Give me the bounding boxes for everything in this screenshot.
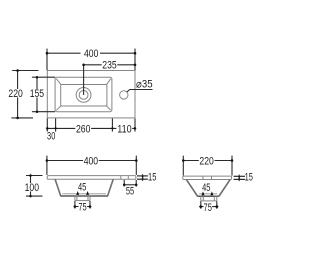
plan view outer rect bbox=[47, 71, 135, 118]
svg-text:400: 400 bbox=[84, 48, 98, 60]
dim dot 155 top bbox=[36, 76, 39, 79]
dim dot 400 right bbox=[134, 52, 137, 55]
svg-text:110: 110 bbox=[117, 123, 131, 135]
dim dot bottom right bbox=[134, 127, 137, 130]
text masks front bbox=[24, 156, 136, 210]
bottom dims extension x46.8 bbox=[46, 118, 48, 131]
front bowl left wall bbox=[55, 179, 61, 195]
text masks side bbox=[199, 156, 215, 210]
basin corner chamfer BR bbox=[107, 106, 111, 110]
dim 30 260 110 line bbox=[47, 127, 135, 129]
side dim 15 line bbox=[238, 175, 240, 182]
side dim 220 ext right bbox=[231, 156, 233, 176]
svg-text:75: 75 bbox=[204, 202, 212, 214]
dim 155 line bbox=[36, 77, 38, 112]
side bowl outer bottom bbox=[197, 195, 219, 197]
front dot 400 right bbox=[135, 159, 138, 162]
front dim 100 line bbox=[30, 176, 32, 197]
front dim 55 ext left bbox=[123, 180, 125, 187]
dim 220 plan ref bottom bbox=[11, 117, 33, 119]
front 15 arrowheads bbox=[141, 176, 144, 179]
tap hole leader line bbox=[127, 90, 153, 93]
dim 400 plan line bbox=[47, 52, 135, 54]
side dim 75 line bbox=[199, 206, 218, 208]
dim dot 235 right bbox=[134, 64, 137, 67]
front dim 55 line bbox=[124, 184, 136, 186]
svg-text:220: 220 bbox=[199, 155, 213, 167]
side dim 75 ext left bbox=[200, 201, 202, 209]
bottom dims extension x134.9 bbox=[134, 118, 136, 131]
front drain fitting bottom bbox=[75, 200, 90, 202]
dim dot bottom left bbox=[46, 127, 49, 130]
front dim 100 ref top bbox=[26, 175, 43, 177]
basin rim rounded rect bbox=[55, 77, 112, 112]
svg-text:55: 55 bbox=[126, 186, 134, 198]
front dim 75 ext right bbox=[89, 201, 91, 209]
front 45 arrow left bbox=[76, 191, 79, 195]
side drain tick left bbox=[202, 176, 204, 179]
text masks plan bbox=[8, 49, 133, 132]
side dim 75 ext right bbox=[216, 201, 218, 209]
front dim 15 line bbox=[142, 174, 144, 181]
front 75 dot left bbox=[74, 205, 77, 208]
front dim 15 ext top bbox=[137, 175, 148, 177]
drain outer circle bbox=[76, 88, 91, 103]
front bowl outer bottom bbox=[60, 195, 108, 197]
dim 220 plan line bbox=[17, 71, 19, 118]
basin corner chamfer TL bbox=[56, 79, 61, 85]
svg-text:45: 45 bbox=[202, 182, 210, 194]
basin corner chamfer BL bbox=[56, 106, 61, 110]
basin corner chamfer TR bbox=[107, 79, 111, 85]
bottom dims extension x54.4 bbox=[55, 118, 57, 131]
front bowl inner bottom bbox=[62, 193, 106, 195]
dim dot 220 bottom bbox=[16, 117, 19, 120]
dim 400 plan extension right bbox=[134, 49, 136, 71]
side dim 15 ext top bbox=[234, 175, 246, 177]
front drain fitting walls bbox=[75, 196, 90, 201]
bottom dims extension x113.4 bbox=[111, 118, 113, 131]
dim 155 ref bottom bbox=[32, 111, 55, 113]
front dim 400 line bbox=[47, 160, 136, 162]
side drain fitting walls bbox=[201, 196, 217, 201]
side bowl left wall bbox=[186, 179, 197, 196]
front dot 100 top bbox=[29, 174, 32, 177]
side 75 dot right bbox=[216, 205, 219, 208]
front dim 75 line bbox=[74, 206, 92, 208]
tap hole circle bbox=[120, 91, 128, 99]
dim 155 ref top bbox=[32, 76, 55, 78]
basin inner bottom rect bbox=[61, 85, 107, 107]
front dim 15 ext bottom bbox=[137, 178, 148, 180]
dim 220 plan ref top bbox=[12, 70, 38, 72]
dim 400 plan extension left bbox=[46, 49, 48, 71]
side bowl inner bottom bbox=[199, 193, 217, 195]
dim 235 leader to drain bbox=[83, 65, 85, 95]
side dot 220 right bbox=[231, 159, 234, 162]
dim dot 400 left bbox=[46, 52, 49, 55]
side 75 dot left bbox=[200, 205, 203, 208]
side rim band bbox=[183, 176, 232, 179]
svg-text:155: 155 bbox=[30, 88, 44, 100]
side drain tick right bbox=[211, 176, 213, 179]
svg-text:400: 400 bbox=[84, 155, 98, 167]
side dot 220 left bbox=[182, 159, 185, 162]
drain inner circle bbox=[79, 91, 88, 100]
svg-text:235: 235 bbox=[102, 60, 116, 72]
front 45 arrow right bbox=[86, 191, 89, 195]
svg-text:30: 30 bbox=[47, 131, 55, 143]
front dim 75 ext left bbox=[74, 201, 76, 209]
front bowl right wall bbox=[108, 179, 114, 195]
svg-text:100: 100 bbox=[25, 182, 39, 194]
side 45 arrow right bbox=[210, 191, 213, 195]
front tap hole tick right bbox=[127, 176, 129, 180]
side drain fitting bottom bbox=[201, 200, 217, 202]
front dot 100 bottom bbox=[29, 195, 32, 198]
dim dot 155 bottom bbox=[36, 110, 39, 113]
front dim 55 ext right bbox=[135, 180, 137, 187]
front dot 55 right bbox=[135, 184, 138, 187]
svg-text:15: 15 bbox=[245, 172, 253, 184]
front dim 100 ref bottom bbox=[26, 195, 43, 197]
dim dot 220 top bbox=[16, 69, 19, 72]
svg-text:220: 220 bbox=[8, 88, 22, 100]
svg-text:75: 75 bbox=[78, 201, 86, 213]
svg-text:15: 15 bbox=[148, 172, 156, 184]
front rim band bbox=[47, 176, 136, 180]
svg-text:260: 260 bbox=[76, 123, 90, 135]
side bowl right wall bbox=[219, 179, 230, 196]
side dim 220 line bbox=[183, 160, 232, 162]
front 75 dot right bbox=[89, 205, 92, 208]
side dim 15 ext bottom bbox=[234, 178, 246, 180]
side dim 220 ext left bbox=[182, 156, 184, 176]
dim 235 line bbox=[84, 64, 135, 66]
front dot 400 left bbox=[46, 159, 49, 162]
front tap hole tick left bbox=[120, 176, 122, 180]
svg-text:45: 45 bbox=[78, 181, 86, 193]
front dim 400 ext right bbox=[135, 156, 137, 175]
front dim 400 ext left bbox=[46, 156, 48, 175]
dim dot 235 left bbox=[82, 64, 85, 67]
side 15 arrowheads bbox=[238, 176, 241, 179]
front dot 55 left bbox=[123, 184, 126, 187]
side 45 arrow left bbox=[202, 191, 205, 195]
svg-text:⌀35: ⌀35 bbox=[136, 78, 153, 90]
